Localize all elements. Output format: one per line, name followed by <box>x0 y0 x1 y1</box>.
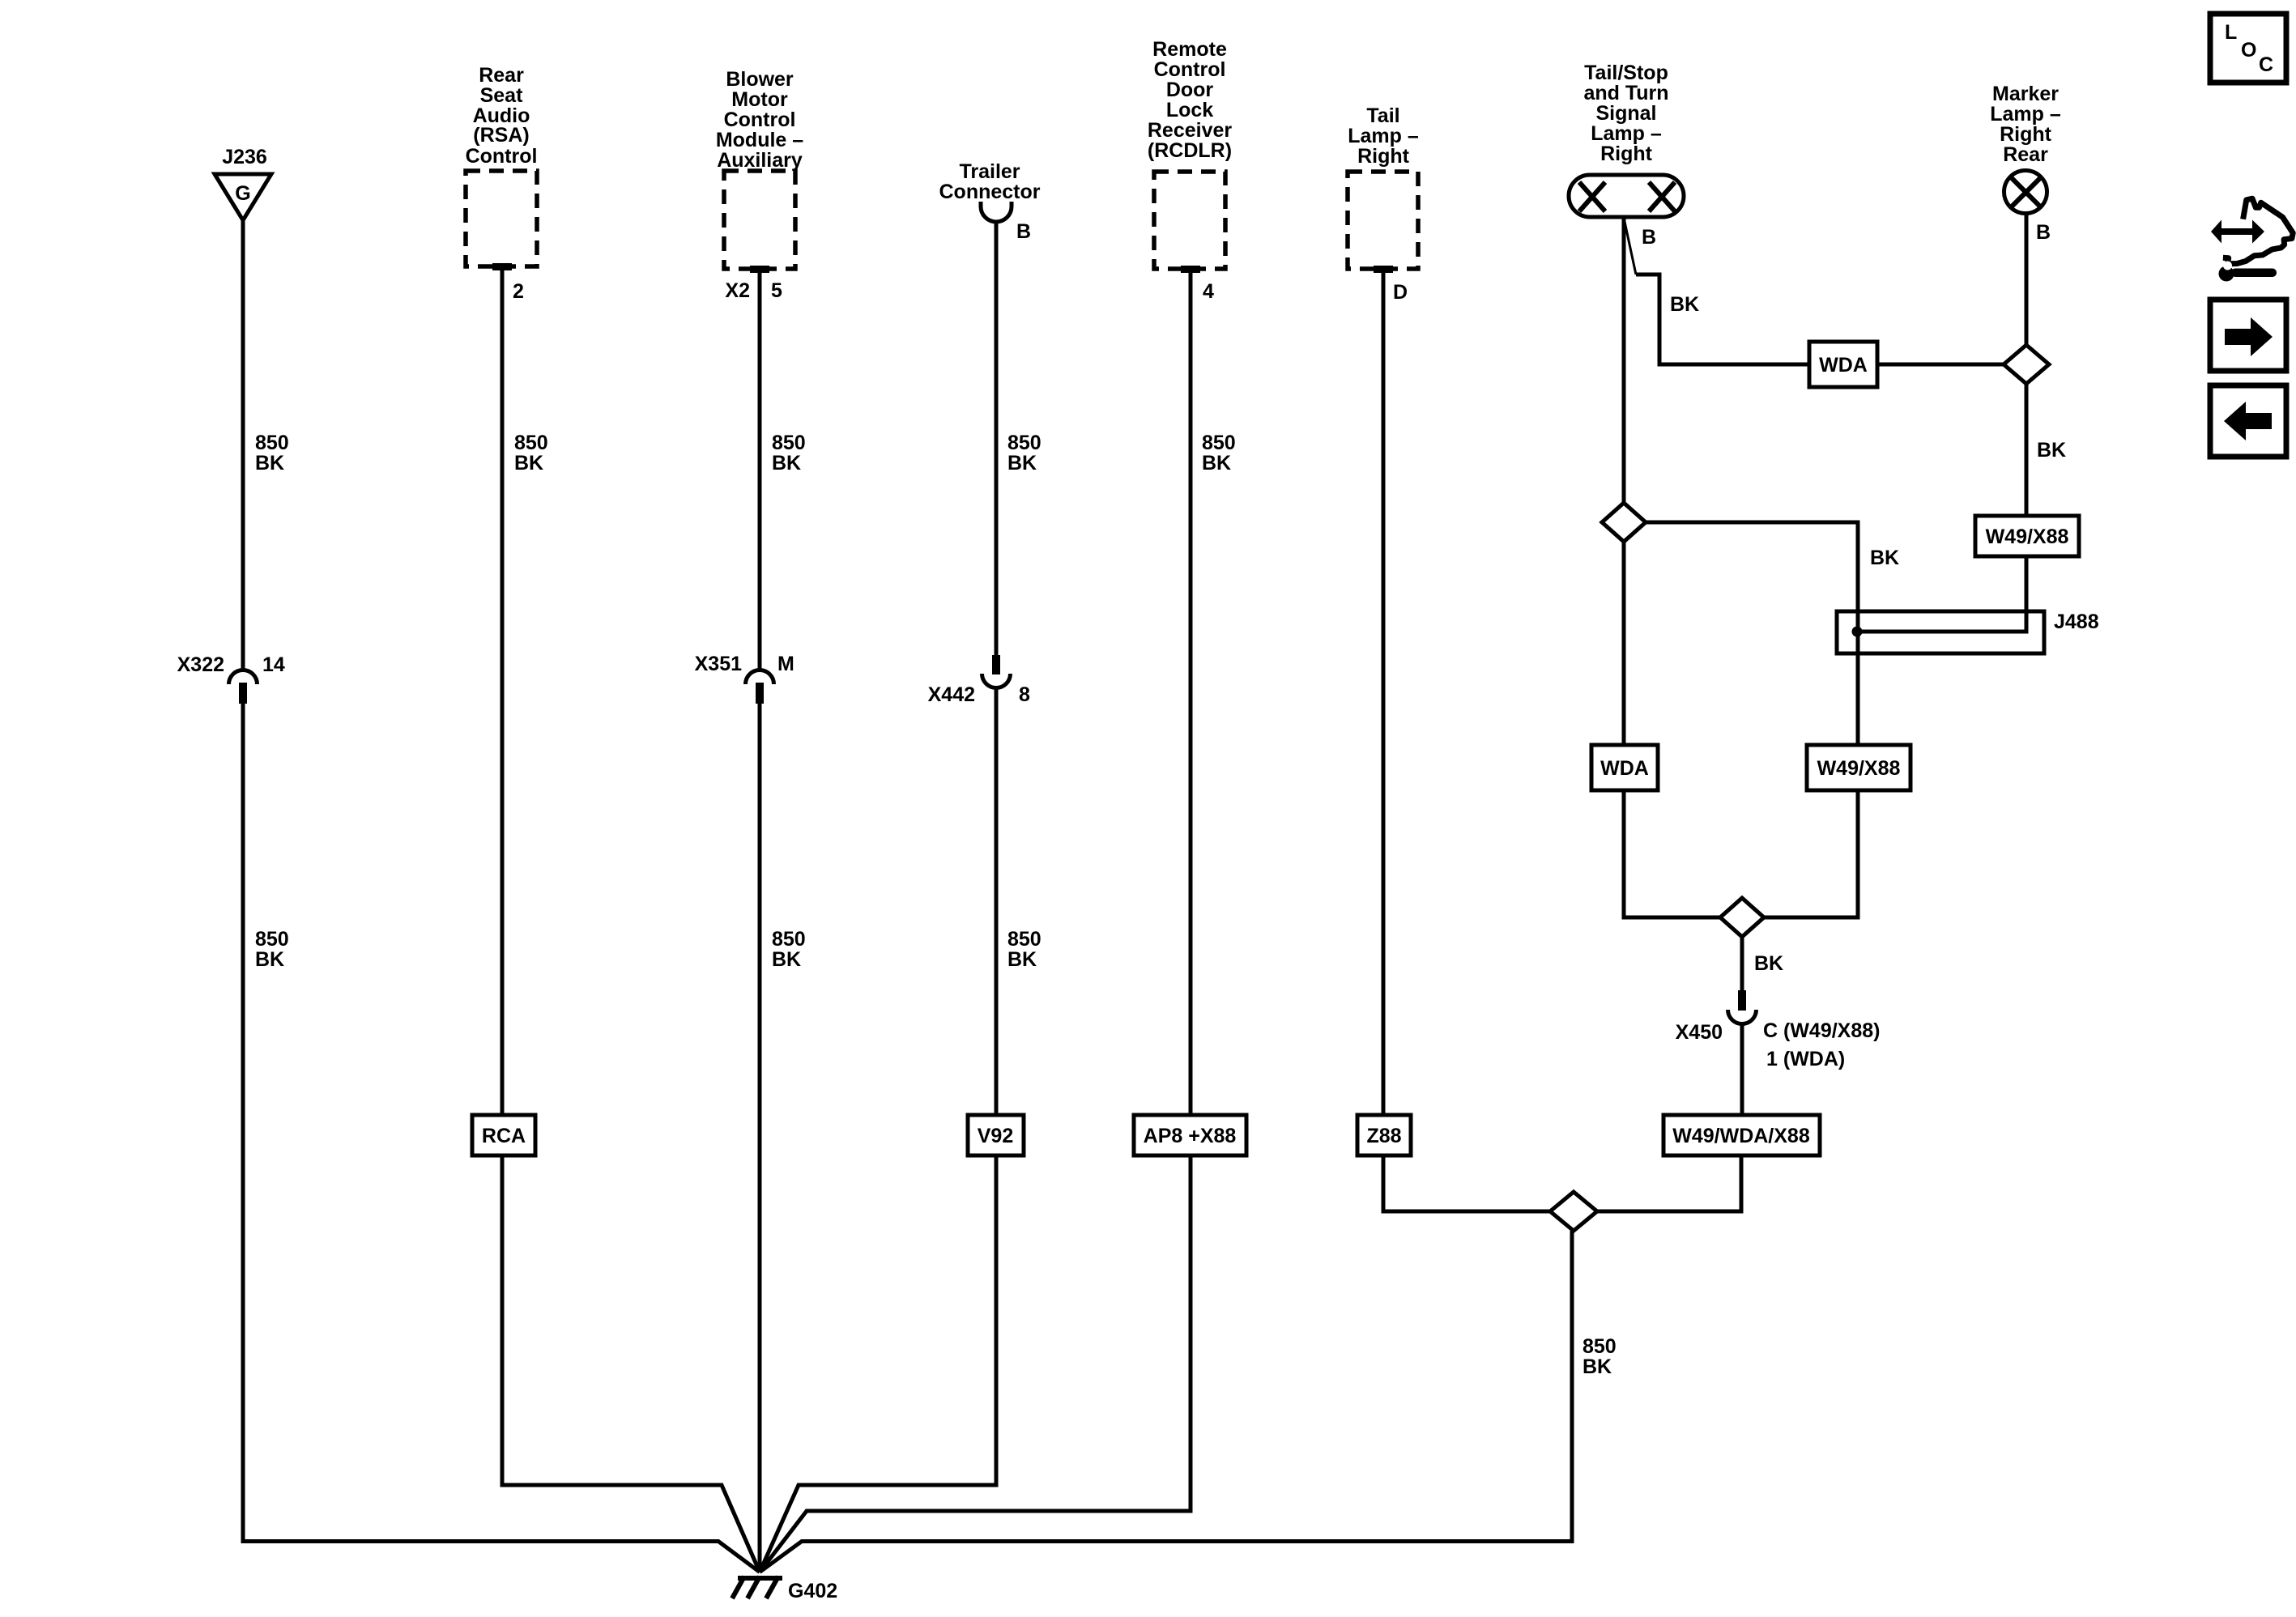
svg-text:X351: X351 <box>695 653 742 675</box>
svg-text:(RCDLR): (RCDLR) <box>1148 139 1232 162</box>
back arrow box <box>2210 385 2286 457</box>
svg-text:W49/X88: W49/X88 <box>1817 757 1901 780</box>
svg-text:O: O <box>2241 39 2256 62</box>
connector X322 pin 14 <box>229 670 258 685</box>
splice RCA box <box>472 1115 535 1155</box>
svg-text:BK: BK <box>1007 452 1037 474</box>
svg-text:Motor: Motor <box>731 88 788 111</box>
svg-text:BK: BK <box>255 948 284 971</box>
splice AP8 +X88 box <box>1134 1115 1246 1155</box>
wire WDA to right diamond <box>1877 363 2004 367</box>
svg-text:Right: Right <box>2000 123 2052 146</box>
diamond splice mid <box>1720 898 1764 937</box>
wire W49/WDA/X88 to bottom diamond <box>1597 1155 1741 1211</box>
forward arrow box <box>2210 300 2286 371</box>
svg-text:850: 850 <box>772 928 806 951</box>
svg-text:and Turn: and Turn <box>1583 82 1668 104</box>
splice Z88 box <box>1357 1115 1411 1155</box>
svg-text:Lamp –: Lamp – <box>1990 103 2061 126</box>
svg-text:BK: BK <box>255 452 284 474</box>
svg-text:Control: Control <box>724 109 796 131</box>
svg-text:X450: X450 <box>1676 1021 1723 1044</box>
wire RCDLR pin 4 down <box>1189 270 1193 1115</box>
svg-text:W49/X88: W49/X88 <box>1986 526 2069 548</box>
svg-text:850: 850 <box>1202 432 1236 454</box>
svg-text:B: B <box>1642 226 1656 249</box>
svg-text:2: 2 <box>513 280 524 303</box>
svg-text:850: 850 <box>1007 432 1042 454</box>
svg-text:X322: X322 <box>177 653 224 676</box>
svg-text:BK: BK <box>772 948 801 971</box>
svg-text:850: 850 <box>1582 1335 1617 1358</box>
svg-text:850: 850 <box>514 432 548 454</box>
svg-text:Lamp –: Lamp – <box>1591 122 1662 145</box>
wire left diamond to J488 vertical <box>1646 522 1858 745</box>
wire X442 to V92 <box>995 688 999 1116</box>
svg-text:Remote: Remote <box>1152 38 1227 61</box>
svg-text:Control: Control <box>466 145 538 168</box>
wire RSA pin 2 down <box>501 267 505 1115</box>
svg-text:Receiver: Receiver <box>1148 119 1233 142</box>
wire left diamond down to WDA mid <box>1622 542 1626 745</box>
svg-text:J488: J488 <box>2054 611 2099 633</box>
svg-text:D: D <box>1393 281 1408 304</box>
splice W49/X88 box top <box>1975 516 2079 556</box>
svg-text:BK: BK <box>1007 948 1037 971</box>
wire Z88 to bottom diamond <box>1383 1155 1550 1211</box>
wire V92 to ground <box>760 1155 996 1572</box>
wire bottom diamond to ground G402 <box>760 1231 1572 1572</box>
wire tail/stop B branch to WDA <box>1624 218 1636 274</box>
wire marker B to right diamond <box>2025 214 2029 345</box>
svg-text:G402: G402 <box>788 1580 837 1602</box>
wire W49/X88 to J488 <box>1857 556 2026 632</box>
svg-text:(RSA): (RSA) <box>473 124 529 147</box>
svg-text:B: B <box>1016 220 1031 243</box>
svg-text:Marker: Marker <box>1992 83 2059 105</box>
wire J236 to X322 <box>241 220 245 670</box>
svg-text:Control: Control <box>1154 58 1226 81</box>
svg-text:WDA: WDA <box>1600 757 1649 780</box>
ground G402 <box>738 1576 782 1581</box>
connector X442 pin 8 <box>992 655 1000 674</box>
svg-text:850: 850 <box>1007 928 1042 951</box>
diamond splice left <box>1602 503 1646 542</box>
svg-text:L: L <box>2225 21 2237 44</box>
diamond splice bottom <box>1550 1192 1597 1231</box>
svg-text:BK: BK <box>1754 952 1783 975</box>
svg-text:C (W49/X88): C (W49/X88) <box>1763 1019 1880 1042</box>
splice WDA box upper <box>1809 342 1877 387</box>
splice W49/WDA/X88 box <box>1663 1115 1820 1155</box>
svg-text:Tail/Stop: Tail/Stop <box>1584 62 1668 84</box>
svg-text:Z88: Z88 <box>1366 1125 1401 1147</box>
wire W49/X88 mid to mid diamond <box>1764 790 1858 917</box>
svg-text:Rear: Rear <box>2003 143 2048 166</box>
svg-text:BK: BK <box>1582 1355 1612 1378</box>
svg-text:Right: Right <box>1357 145 1410 168</box>
svg-text:BK: BK <box>772 452 801 474</box>
svg-text:Lock: Lock <box>1166 99 1213 121</box>
wire X351 to ground G402 <box>758 704 762 1572</box>
svg-text:AP8 +X88: AP8 +X88 <box>1144 1125 1237 1147</box>
wire X450 to W49/WDA/X88 <box>1740 1024 1744 1116</box>
svg-text:Auxiliary: Auxiliary <box>717 149 803 172</box>
svg-text:Right: Right <box>1600 143 1653 165</box>
svg-text:14: 14 <box>262 653 285 676</box>
wire RCA to ground <box>502 1155 760 1572</box>
svg-text:5: 5 <box>771 279 782 302</box>
svg-text:Lamp –: Lamp – <box>1348 125 1419 147</box>
ground triangle J236 <box>215 174 271 220</box>
wire X322 to ground G402 <box>243 704 760 1572</box>
svg-text:BK: BK <box>1202 452 1231 474</box>
wire mid diamond to X450 <box>1740 937 1744 990</box>
svg-text:Signal: Signal <box>1595 102 1656 125</box>
svg-text:G: G <box>235 182 250 205</box>
svg-text:Rear: Rear <box>479 64 524 87</box>
svg-text:X442: X442 <box>928 683 975 706</box>
svg-text:Door: Door <box>1166 79 1214 101</box>
svg-text:J236: J236 <box>222 146 267 168</box>
vehicle service icon <box>2211 198 2293 281</box>
svg-text:8: 8 <box>1019 683 1030 706</box>
svg-text:V92: V92 <box>978 1125 1013 1147</box>
svg-text:BK: BK <box>2037 439 2066 462</box>
svg-text:Module –: Module – <box>716 129 803 151</box>
svg-text:Tail: Tail <box>1366 104 1399 127</box>
svg-text:Blower: Blower <box>726 68 794 91</box>
connector X351 pin M <box>746 670 774 685</box>
svg-text:X2: X2 <box>725 279 750 302</box>
connector X450 pin C/1 <box>1738 990 1746 1011</box>
svg-text:1 (WDA): 1 (WDA) <box>1766 1048 1845 1070</box>
wire AP8 to ground <box>760 1155 1191 1572</box>
junction block J488 <box>1837 611 2044 653</box>
LOC legend box <box>2210 14 2286 83</box>
svg-text:Connector: Connector <box>939 181 1041 203</box>
splice W49/X88 box mid <box>1807 745 1910 790</box>
svg-text:M: M <box>777 653 794 675</box>
wire right diamond to W49/X88 top <box>2025 384 2029 516</box>
svg-text:Trailer: Trailer <box>959 160 1020 183</box>
svg-text:850: 850 <box>255 928 289 951</box>
svg-text:850: 850 <box>772 432 806 454</box>
svg-text:BK: BK <box>514 452 543 474</box>
wire blower X2-5 to X351 <box>758 270 762 670</box>
wire trailer B to X442 <box>995 222 999 655</box>
svg-text:WDA: WDA <box>1819 354 1868 377</box>
svg-text:B: B <box>2036 221 2051 244</box>
splice V92 box <box>968 1115 1024 1155</box>
wire WDA mid to mid diamond <box>1624 790 1720 917</box>
svg-text:BK: BK <box>1870 547 1899 569</box>
svg-text:W49/WDA/X88: W49/WDA/X88 <box>1672 1125 1810 1147</box>
svg-text:Seat: Seat <box>480 84 523 107</box>
svg-text:850: 850 <box>255 432 289 454</box>
wire tail/stop B to diamond <box>1622 217 1626 503</box>
svg-text:4: 4 <box>1203 280 1214 303</box>
svg-text:RCA: RCA <box>482 1125 526 1147</box>
svg-text:C: C <box>2259 53 2273 76</box>
diamond splice right <box>2004 345 2049 384</box>
wire tail lamp D to Z88 <box>1382 270 1386 1115</box>
svg-text:BK: BK <box>1670 293 1699 316</box>
splice WDA box mid <box>1591 745 1658 790</box>
